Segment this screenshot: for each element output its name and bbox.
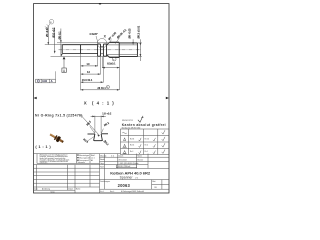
svg-text:0.02: 0.02: [42, 80, 47, 83]
svg-text:Norm: Norm: [100, 167, 105, 169]
svg-text:1.4305 (X8CrNiS18-9) blank: 1.4305 (X8CrNiS18-9) blank: [119, 163, 139, 165]
inner hidden lines: [107, 45, 138, 55]
svg-text:8.5±0.1: 8.5±0.1: [107, 62, 116, 65]
small roughness symbols cols 2-3 rows 2-4: [139, 138, 156, 141]
dim 8.5: [102, 67, 119, 69]
svg-text:Rz 4: Rz 4: [145, 145, 148, 147]
sheet frame: [34, 4, 170, 193]
center mark top: [99, 3, 101, 4]
dim 13.3: [81, 81, 104, 83]
svg-text:Ø10 +0.2: Ø10 +0.2: [53, 27, 56, 38]
svg-text:09.01.2014: 09.01.2014: [119, 159, 127, 161]
revision table: [34, 164, 100, 166]
svg-text:X ( 4 : 1 ): X ( 4 : 1 ): [84, 100, 115, 105]
title block text: [100, 154, 143, 168]
svg-text:Nr O-Ring 7x1.5 (225476): Nr O-Ring 7x1.5 (225476): [35, 114, 83, 118]
svg-text:Gepr.: Gepr.: [100, 163, 104, 165]
checkmarks col4: [162, 130, 165, 134]
surface check symbol: [138, 116, 144, 122]
svg-text:Bearb.: Bearb.: [100, 159, 105, 161]
part outline group: [62, 42, 137, 57]
svg-text:Name: Name: [138, 155, 142, 157]
below dims extension lines: [81, 54, 120, 91]
svg-text:Ø4 -0.02: Ø4 -0.02: [46, 27, 49, 37]
detail groove profile: [88, 134, 109, 141]
svg-text:Zeichnungsnr.: Zeichnungsnr.: [100, 181, 111, 183]
svg-text:Ø8 -0.05: Ø8 -0.05: [127, 28, 131, 39]
center mark right: [166, 97, 169, 100]
svg-text:von 1: von 1: [91, 157, 95, 159]
big cylinder: [110, 42, 120, 57]
svg-text:DIN ISO 13715: DIN ISO 13715: [122, 120, 133, 122]
left dim verticals + arrows: [48, 27, 61, 57]
right dims: [133, 39, 142, 61]
svg-text:Spanner: Spanner: [120, 176, 134, 180]
svg-text:Rz 1: Rz 1: [145, 151, 148, 153]
svg-text:Name: Name: [76, 189, 80, 191]
svg-text:Rz 16: Rz 16: [130, 145, 134, 147]
svg-text:Brunner: Brunner: [138, 159, 144, 161]
center mark left: [34, 97, 37, 100]
o-ring boss ribs: [98, 44, 107, 56]
svg-text:13.3 ±0.1: 13.3 ±0.1: [82, 79, 93, 82]
svg-text:26 ±0.1: 26 ±0.1: [97, 87, 106, 90]
revision bottom text: [34, 188, 80, 194]
svg-text:0.5x45°: 0.5x45°: [90, 33, 98, 36]
svg-text:Rz 63: Rz 63: [130, 138, 134, 140]
shaft step: [80, 45, 82, 54]
svg-text:Rz 4: Rz 4: [130, 151, 133, 153]
shaft body: [62, 45, 97, 54]
chamfer: [107, 42, 110, 57]
detail circle X: [97, 39, 106, 48]
top line left part: [34, 153, 121, 155]
detail dim 1.8: [95, 116, 101, 134]
datum A: [63, 57, 65, 68]
left extension lines: [45, 43, 120, 57]
svg-text:Kanten absolut gratfrei: Kanten absolut gratfrei: [122, 123, 166, 127]
svg-text:Ø8.3 ±0.01: Ø8.3 ±0.01: [136, 25, 140, 38]
right block: [99, 154, 101, 193]
GD&T frame: [36, 71, 56, 83]
dim 26: [81, 89, 120, 91]
groove floor: [101, 46, 104, 53]
svg-text:20063: 20063: [118, 183, 131, 188]
checkbox block: [77, 154, 90, 164]
svg-text:1.8 +0.2: 1.8 +0.2: [102, 113, 112, 116]
svg-text:Ø8 -0.1: Ø8 -0.1: [59, 31, 62, 40]
surface symbol top-left: [45, 19, 54, 28]
legal text box: [40, 154, 70, 165]
svg-text:DIN ISO 2768-mK: DIN ISO 2768-mK: [118, 166, 132, 168]
left boxes: [37, 154, 90, 164]
svg-text:Kolben APH 40.0 6R2: Kolben APH 40.0 6R2: [110, 170, 151, 175]
dim 12: [81, 73, 101, 75]
svg-text:( 1 : 1 ): ( 1 : 1 ): [35, 144, 51, 149]
svg-text:Urspr.: Urspr.: [51, 192, 56, 194]
svg-text:Rz 16: Rz 16: [145, 138, 149, 140]
dim 10: [81, 65, 98, 67]
centerline: [59, 49, 141, 51]
